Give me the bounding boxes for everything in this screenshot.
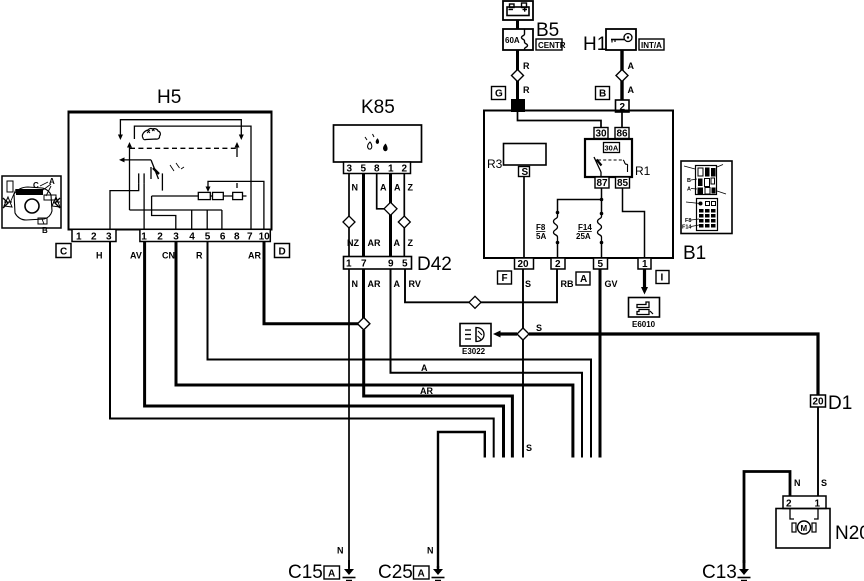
svg-text:A: A (687, 187, 691, 193)
wire N from N20 pin 2 to ground C13 (744, 472, 790, 564)
svg-text:A: A (580, 274, 587, 285)
svg-text:A: A (418, 569, 425, 580)
svg-text:C: C (60, 247, 67, 258)
svg-text:M: M (801, 524, 808, 533)
pin 2 box on B1 top (616, 100, 630, 113)
fuse 60A of B5 (503, 29, 533, 50)
node F (498, 271, 512, 284)
H5 link to pin 10 with down arrow (206, 181, 264, 229)
svg-text:A: A (628, 85, 635, 95)
connector D42 strip 1 7 9 5 (344, 257, 412, 270)
svg-text:I: I (661, 273, 664, 284)
connector diamond on A wire (616, 70, 628, 82)
svg-text:R1: R1 (635, 164, 651, 178)
H5 up arrow stub right (235, 142, 240, 188)
node C (56, 244, 71, 258)
svg-text:5: 5 (361, 164, 367, 175)
svg-text:1: 1 (346, 259, 352, 270)
wire S from B1 pin 20 to N15 A pin 3 (522, 269, 524, 458)
svg-text:2: 2 (402, 164, 408, 175)
wire CN from H5 D3 to N15 B1 (176, 242, 573, 458)
wire RV from D42 pin 5 (405, 269, 557, 302)
relay pin 30 (594, 128, 608, 140)
H5 pump line with up arrow (127, 142, 222, 229)
fuse F14 25A (576, 212, 603, 258)
H5 link D1 to contact (143, 183, 145, 229)
node G (492, 87, 506, 100)
svg-text:Z: Z (408, 183, 414, 193)
svg-text:A: A (394, 238, 401, 248)
svg-text:1: 1 (388, 164, 394, 175)
H5 connector strip C pins 1 2 3 (72, 229, 116, 242)
label INT/A (639, 39, 664, 50)
svg-text:3: 3 (347, 164, 353, 175)
wire 87 to fuses junction (558, 188, 602, 213)
connector diamond on Z wire (398, 216, 410, 228)
connector D1 pin 20 (811, 395, 826, 408)
svg-text:1: 1 (141, 232, 147, 243)
svg-text:Z: Z (408, 238, 414, 248)
svg-text:87: 87 (597, 178, 609, 189)
svg-text:B5: B5 (536, 20, 559, 41)
wire R from H5 D5 to N15 B4 (208, 242, 592, 458)
H5 internal rail 1 with down arrows (118, 120, 244, 140)
H5 link D3 to switch (152, 196, 176, 229)
svg-text:N20: N20 (835, 523, 864, 544)
svg-text:5A: 5A (536, 232, 546, 241)
svg-text:A: A (421, 363, 428, 373)
node I (656, 271, 669, 284)
wire AR from K85 pin 5 (362, 174, 365, 257)
svg-text:5: 5 (598, 259, 604, 270)
svg-text:CN: CN (162, 251, 175, 261)
svg-text:RB: RB (561, 279, 574, 289)
K85 pin strip 3 5 8 1 2 (344, 162, 411, 175)
svg-text:F8: F8 (536, 223, 546, 232)
front fog lamps symbol E3022 (460, 324, 491, 347)
svg-text:20: 20 (518, 259, 530, 270)
wire H from H5 C3 to N15 A5 (110, 242, 494, 458)
svg-text:GV: GV (605, 279, 618, 289)
B1 location legend (681, 161, 732, 234)
wire GV from B1 pin 5 to N15 B pin 3 (599, 269, 602, 458)
svg-text:S: S (525, 279, 531, 289)
H5 dashed park line (130, 147, 237, 149)
svg-text:E3022: E3022 (462, 347, 486, 356)
svg-text:A: A (394, 183, 401, 193)
svg-text:H5: H5 (157, 87, 181, 108)
B1 pin 1 (638, 258, 651, 270)
wire A from H1 down (620, 50, 623, 100)
svg-text:N: N (794, 478, 801, 488)
svg-text:7: 7 (361, 259, 367, 270)
svg-text:F14: F14 (682, 225, 692, 231)
connector diamond on RV/RB wire (469, 296, 481, 308)
svg-text:D: D (279, 247, 286, 258)
svg-text:4: 4 (189, 232, 195, 243)
wire AV from H5 D1 to N15 A4 (145, 242, 504, 458)
svg-text:86: 86 (617, 129, 629, 140)
washer pump N20 (776, 496, 830, 548)
svg-text:20: 20 (813, 397, 825, 408)
svg-text:F: F (502, 273, 508, 284)
wire from pin 2 to relay pin 86 (621, 112, 623, 128)
svg-text:NZ: NZ (347, 238, 359, 248)
label CENTR (536, 39, 566, 50)
relay R1 (585, 139, 632, 177)
svg-text:8: 8 (234, 232, 240, 243)
wire A from K85 pin 1 (389, 174, 392, 257)
connector diamond on R wire (512, 70, 524, 82)
svg-text:5: 5 (402, 259, 408, 270)
svg-text:C25: C25 (378, 562, 413, 581)
svg-text:B: B (42, 226, 48, 235)
node A below B1 (576, 272, 590, 285)
wire R from fuse B5 down (516, 50, 519, 99)
svg-text:3: 3 (173, 232, 179, 243)
svg-text:K85: K85 (361, 97, 395, 118)
svg-text:2: 2 (91, 232, 97, 243)
wire 85 to pin 1 (623, 188, 645, 258)
svg-text:C13: C13 (702, 562, 737, 581)
wire AR from D42 pin 7 to diamond (362, 269, 365, 324)
svg-text:60A: 60A (505, 36, 520, 45)
relay pin 86 (615, 128, 629, 140)
fuse F8 5A (536, 211, 559, 258)
svg-text:1: 1 (76, 232, 82, 243)
svg-text:30: 30 (596, 129, 608, 140)
B1 pin 2 (551, 258, 565, 270)
svg-text:3: 3 (106, 232, 112, 243)
B1 pin 20 (515, 258, 534, 270)
battery B5 (503, 1, 533, 20)
H5 switch with left arrow (119, 157, 184, 190)
svg-text:6: 6 (220, 232, 226, 243)
svg-text:B: B (687, 178, 691, 184)
svg-text:B1: B1 (683, 243, 706, 264)
svg-text:2: 2 (555, 259, 561, 270)
relay pin 85 (616, 177, 630, 189)
wire N from C25 ground to N15 A1 (438, 432, 485, 568)
svg-text:D1: D1 (828, 393, 852, 414)
svg-text:B: B (599, 89, 606, 100)
wire N from D42 pin 1 to ground C15 (348, 269, 350, 568)
resistor R3 (487, 144, 546, 172)
H5 resistor chain (152, 192, 247, 199)
svg-text:2: 2 (157, 232, 163, 243)
arrow from S bus into E3022 (500, 332, 517, 335)
H5 link C3 to contact (110, 183, 139, 229)
wire from B1 pin 1 with arrow to E6010 (643, 269, 646, 288)
svg-text:8: 8 (374, 164, 380, 175)
H5 washer jet icon (142, 128, 160, 139)
wire Z from K85 pin 2 (403, 174, 405, 257)
svg-text:10: 10 (259, 232, 271, 243)
svg-text:AR: AR (420, 386, 433, 396)
wire A from D42 pin 9 to N15 B pin 2 (391, 269, 583, 458)
svg-text:R3: R3 (487, 157, 503, 171)
svg-text:5: 5 (205, 232, 211, 243)
svg-text:N: N (352, 279, 359, 289)
svg-text:S: S (526, 443, 532, 453)
wire N from K85 pin 3 (348, 174, 350, 257)
B1 pin 5 (594, 258, 608, 270)
svg-text:C15: C15 (288, 562, 323, 581)
svg-text:25A: 25A (576, 232, 591, 241)
svg-text:A: A (328, 569, 335, 580)
wire AR from diamond to N15 A2 (364, 330, 513, 458)
svg-text:S: S (821, 478, 827, 488)
wire S from D1 to N20 pin 1 (817, 407, 819, 496)
R3 pin S (519, 167, 530, 179)
S bus wire to D1 (529, 334, 818, 395)
svg-text:R: R (196, 251, 203, 261)
svg-text:85: 85 (617, 178, 629, 189)
connector diamond joining pin 8 and pin 1 wires (384, 202, 397, 215)
svg-text:S: S (522, 167, 529, 178)
wire battery to fuse (516, 20, 519, 29)
svg-text:AV: AV (130, 251, 142, 261)
svg-text:G: G (495, 89, 503, 100)
H5 connector strip D pins 1-10 (140, 229, 270, 242)
svg-text:7: 7 (247, 232, 253, 243)
S bus diamond junction (517, 328, 529, 340)
svg-text:S: S (536, 323, 542, 333)
svg-text:1: 1 (642, 259, 648, 270)
svg-text:F8: F8 (685, 218, 691, 224)
intermittent relay E6010 (629, 298, 660, 318)
svg-text:F14: F14 (578, 223, 592, 232)
svg-text:H: H (96, 251, 103, 261)
svg-text:A: A (394, 279, 401, 289)
svg-text:A: A (380, 183, 387, 193)
node B (596, 87, 610, 100)
wire from G block to relay pin 30 (518, 112, 602, 128)
svg-text:30A: 30A (605, 144, 619, 153)
svg-text:INT/A: INT/A (641, 41, 662, 50)
svg-text:R: R (523, 61, 530, 71)
wire AR from H5 D10 to diamond (264, 242, 358, 324)
connector diamond AR junction (358, 318, 370, 330)
H5 internal rail 2 to pin 7 (134, 126, 251, 229)
fusebox B1 outline (484, 111, 673, 259)
svg-text:E6010: E6010 (632, 320, 656, 329)
svg-text:RV: RV (409, 279, 421, 289)
svg-text:N: N (352, 183, 359, 193)
svg-text:AR: AR (248, 251, 261, 261)
wire A from K85 pin 8 (377, 174, 385, 209)
svg-text:R: R (523, 85, 530, 95)
relay pin 87 (595, 177, 609, 189)
svg-text:H1: H1 (583, 34, 607, 55)
svg-text:AR: AR (368, 238, 381, 248)
node D (275, 244, 290, 258)
svg-text:N: N (337, 546, 344, 556)
svg-text:CENTR: CENTR (538, 41, 566, 50)
svg-text:D42: D42 (417, 254, 452, 275)
svg-text:AR: AR (368, 279, 381, 289)
connector diamond on N wire (343, 216, 355, 228)
svg-text:N: N (427, 546, 434, 556)
svg-text:9: 9 (388, 259, 394, 270)
filled connector block on B1 top (511, 99, 525, 112)
wire R3 S to pin 20 (523, 177, 525, 259)
svg-text:C: C (33, 181, 39, 190)
H5 motor location icon (2, 176, 61, 235)
svg-text:A: A (628, 61, 635, 71)
